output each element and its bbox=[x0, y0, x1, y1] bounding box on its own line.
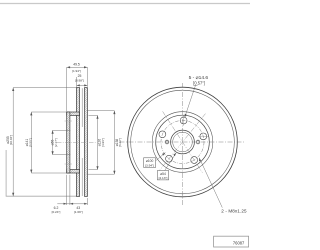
top dimension 25 bbox=[77, 77, 88, 87]
svg-text:[5.55"]: [5.55"] bbox=[28, 138, 32, 147]
top dimension 49.5 bbox=[67, 67, 88, 111]
center bore inner bbox=[173, 132, 193, 152]
bolt circle (dash-dot) bbox=[161, 121, 204, 164]
hat flange bar bbox=[67, 112, 70, 173]
dimension C (center bore) bbox=[53, 130, 67, 154]
hat bottom wall bbox=[67, 170, 80, 173]
sheet top border bbox=[0, 3, 250, 5]
title block bbox=[214, 236, 249, 247]
lug hole 1 (top) bbox=[180, 117, 187, 124]
hat top wall bbox=[67, 112, 80, 115]
leader 5 - dia 14.6 bbox=[185, 85, 196, 117]
svg-text:[10.04"]: [10.04"] bbox=[9, 135, 13, 145]
dim B text bbox=[25, 138, 32, 147]
M8 hole right bbox=[196, 140, 199, 143]
svg-text:[3.94"]: [3.94"] bbox=[145, 163, 154, 167]
svg-text:[1.69"]: [1.69"] bbox=[74, 210, 83, 214]
svg-text:[0.57"]: [0.57"] bbox=[193, 81, 205, 86]
svg-text:[0.24"]: [0.24"] bbox=[52, 210, 61, 214]
vent vane edge upper bbox=[81, 88, 83, 127]
lug hole 2 bbox=[200, 133, 207, 140]
boxed label bore 54 bbox=[157, 171, 168, 180]
dim C text bbox=[51, 138, 58, 147]
centerline horizontal bbox=[120, 141, 246, 143]
svg-text:2 - M8x1.25: 2 - M8x1.25 bbox=[221, 209, 247, 214]
lug hole 3 bbox=[191, 157, 198, 164]
M8 hole left bbox=[165, 140, 168, 143]
svg-text:[4.96"]: [4.96"] bbox=[101, 138, 105, 147]
svg-text:[2.17"]: [2.17"] bbox=[54, 138, 58, 147]
center bore outer bbox=[171, 130, 195, 154]
outer circle bbox=[128, 87, 238, 197]
lug holes 5x bbox=[159, 117, 207, 163]
dimension D (hat inner diameter) bbox=[89, 115, 98, 169]
centerline diagonal 57deg bbox=[163, 111, 203, 172]
svg-text:49.5: 49.5 bbox=[73, 62, 80, 66]
sheet corner frame bottom-left bbox=[6, 150, 76, 196]
svg-text:76087: 76087 bbox=[233, 240, 245, 245]
lug hole 5 bbox=[159, 131, 166, 138]
hat outer circle bbox=[152, 112, 213, 173]
M8 holes 2x bbox=[165, 140, 199, 143]
hat face circle bbox=[156, 115, 210, 169]
centerline diagonal 126deg bbox=[160, 114, 206, 171]
dimension E bbox=[88, 111, 115, 175]
dimension A (outer diameter) bbox=[13, 88, 76, 197]
centerline vertical bbox=[182, 83, 184, 206]
dim E text bbox=[115, 138, 122, 147]
dimension B (hat diameter) bbox=[31, 112, 66, 173]
bottom dimensions 6.2 and 43 bbox=[57, 175, 87, 205]
lug hole center ticks bbox=[184, 115, 209, 136]
boxed label BCD 100 bbox=[144, 158, 156, 168]
inner rim circle bbox=[131, 90, 235, 194]
dim A text bbox=[6, 135, 13, 145]
svg-text:[0.98"]: [0.98"] bbox=[75, 78, 84, 82]
svg-text:[1.94"]: [1.94"] bbox=[72, 69, 81, 73]
svg-text:[6.22"]: [6.22"] bbox=[118, 138, 122, 147]
disc right plate (hatched) bbox=[85, 88, 88, 197]
bore edges bbox=[66, 130, 70, 154]
lug hole 4 bbox=[166, 155, 173, 162]
section axis centerline bbox=[57, 142, 97, 144]
vent vane edge lower bbox=[81, 158, 83, 196]
dim D text bbox=[98, 138, 105, 147]
leader 2 - M8x1.25 bbox=[199, 158, 222, 208]
disc left plate (hatched) bbox=[76, 88, 79, 197]
lug hole axis marks in flange bbox=[65, 120, 73, 122]
svg-text:[2.13"]: [2.13"] bbox=[159, 176, 168, 180]
